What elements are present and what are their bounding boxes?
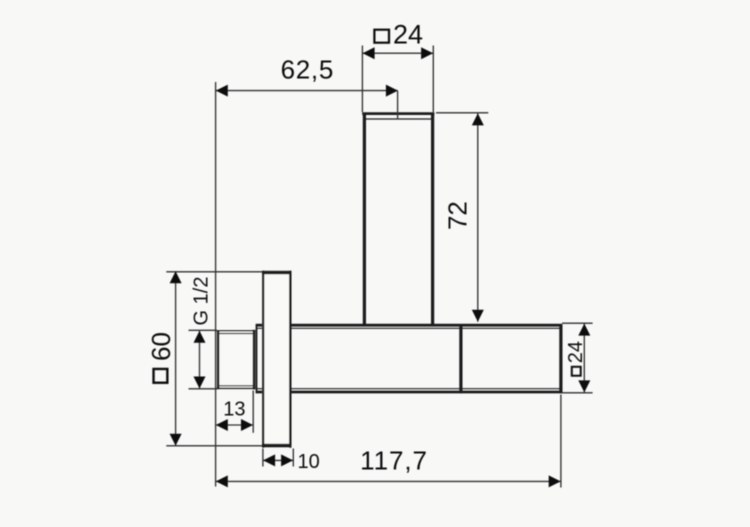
label square 24 rotated <box>565 341 587 376</box>
svg-text:13: 13 <box>223 398 245 420</box>
arrowhead left <box>263 454 275 466</box>
arrowhead left 62,5 <box>216 85 228 97</box>
label G 1/2 rotated <box>190 277 212 326</box>
flange top cap <box>262 271 292 275</box>
extension line top <box>166 271 262 273</box>
flange right edge <box>289 271 291 448</box>
arrowhead down <box>194 377 206 389</box>
svg-text:60: 60 <box>146 332 176 361</box>
svg-text:117,7: 117,7 <box>360 445 428 475</box>
extension line right <box>432 46 434 113</box>
extension line top <box>436 112 488 114</box>
dimension 62,5 <box>216 54 398 119</box>
leader tick to tube centre <box>397 91 399 119</box>
vertical square tube (top spout) <box>362 113 434 325</box>
extension line right <box>560 395 562 488</box>
svg-text:24: 24 <box>565 341 587 363</box>
arrowhead left <box>216 419 228 431</box>
svg-text:10: 10 <box>297 451 319 473</box>
extension line left <box>361 46 363 113</box>
dimension square 24 (top) <box>362 19 433 112</box>
arrowhead down <box>472 310 484 322</box>
dimension square 60 (left) <box>146 271 262 446</box>
nipple right edge <box>253 330 256 390</box>
wall flange (escutcheon) <box>262 271 292 448</box>
label 72 rotated <box>443 201 473 230</box>
arrowhead left <box>363 47 375 59</box>
nipple left edge <box>217 330 220 389</box>
svg-text:72: 72 <box>443 201 473 230</box>
dimension 10 <box>263 449 320 474</box>
dim line 62,5 <box>216 90 398 92</box>
extension line top <box>562 322 593 324</box>
flange left edge <box>262 271 264 448</box>
square symbol <box>374 30 389 43</box>
tube right wall <box>431 113 434 325</box>
dim line <box>216 424 254 426</box>
tube top cap inner line <box>366 118 432 120</box>
extension line right <box>252 391 254 433</box>
nipple top edge inner <box>219 333 252 335</box>
dimension 72 (vertical) <box>436 113 488 322</box>
dim line <box>175 271 177 446</box>
extension line right <box>292 449 294 467</box>
pipe right end cap <box>559 324 562 393</box>
arrowhead up <box>472 113 484 125</box>
pipe bottom edge inner <box>257 388 561 390</box>
arrowhead right <box>421 47 433 59</box>
dim line <box>216 480 561 482</box>
nipple bottom edge outer <box>217 387 256 389</box>
arrowhead up <box>170 271 182 283</box>
dim line <box>583 323 585 392</box>
tube left wall <box>363 113 366 325</box>
svg-text:24: 24 <box>393 19 423 49</box>
dim line <box>263 459 293 461</box>
threaded nipple G1/2 <box>217 330 256 390</box>
arrowhead right <box>241 419 253 431</box>
pipe top edge outer <box>256 324 562 327</box>
long left extension line (thread tip reference plane) <box>215 82 217 487</box>
svg-text:G 1/2: G 1/2 <box>190 277 212 326</box>
nipple top edge outer <box>217 330 256 332</box>
pipe bottom edge outer <box>256 391 562 394</box>
arrowhead down <box>170 434 182 446</box>
svg-text:62,5: 62,5 <box>281 54 334 84</box>
dimension square 24 (right side) <box>562 323 593 393</box>
extension line bottom <box>166 445 262 447</box>
dim line <box>477 113 479 322</box>
extension line top <box>189 329 218 331</box>
horizontal square pipe body <box>256 324 562 393</box>
arrowhead right 62,5 <box>386 85 398 97</box>
extension line left <box>262 449 264 467</box>
label square 60 rotated <box>146 332 176 383</box>
flange bottom cap <box>262 444 292 448</box>
arrowhead right <box>549 475 561 487</box>
dim line <box>362 52 433 54</box>
arrowhead down <box>578 380 590 392</box>
dim line <box>199 331 201 389</box>
pipe top edge inner <box>257 327 561 329</box>
pipe section divider line <box>459 324 462 393</box>
arrowhead up <box>194 331 206 343</box>
arrowhead up <box>578 324 590 336</box>
dimension 117,7 <box>216 395 561 488</box>
pipe left end cap <box>256 324 258 393</box>
extension line bottom <box>189 388 218 390</box>
tube top cap outer line <box>362 112 434 115</box>
dimension 13 <box>216 391 254 433</box>
arrowhead left <box>216 475 228 487</box>
nipple bottom edge inner <box>219 385 252 387</box>
arrowhead right <box>281 454 293 466</box>
dimension G 1/2 <box>189 277 218 389</box>
extension line bottom <box>562 392 593 394</box>
